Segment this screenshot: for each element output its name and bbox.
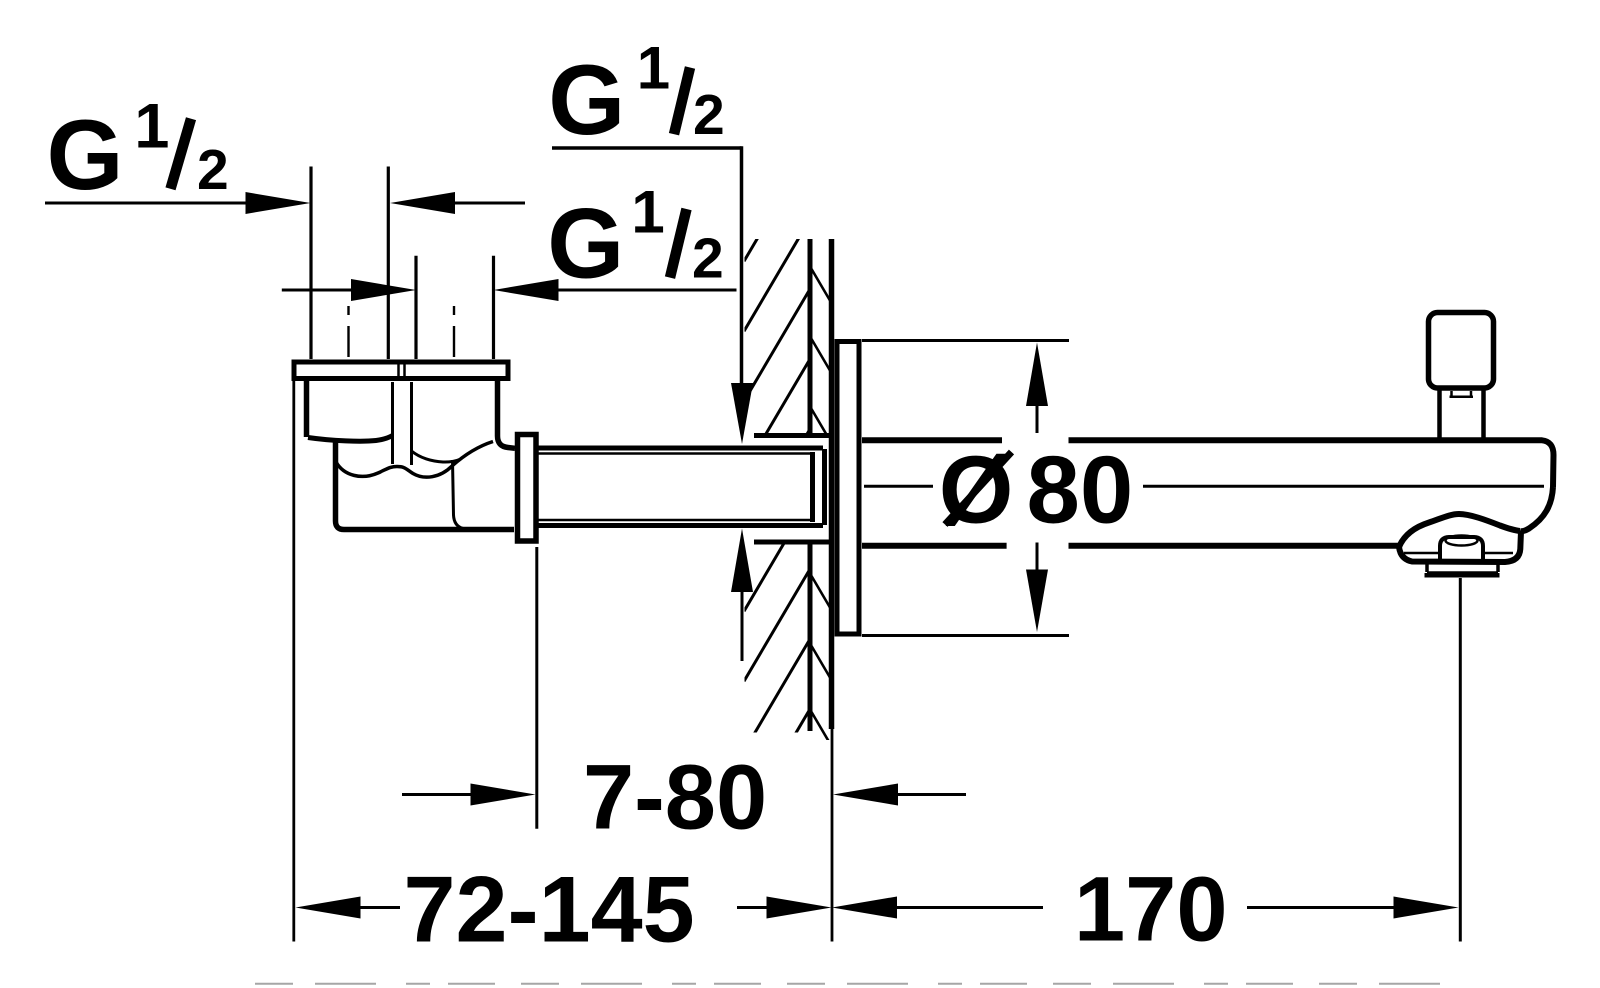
rough wall line lower <box>808 545 813 732</box>
dia80 extension line bottom <box>862 634 1069 637</box>
dim tail left of pair2 <box>282 289 353 292</box>
svg-text:7-80: 7-80 <box>583 747 767 849</box>
casting contour wave <box>336 442 493 478</box>
spout chin ridge <box>1399 514 1520 547</box>
leader drop line <box>740 146 744 385</box>
svg-text:72-145: 72-145 <box>404 857 695 962</box>
right chamber wall and corner to collar <box>498 380 516 448</box>
dia80 down arrowhead <box>1026 570 1048 633</box>
bowtie arrow left-tip at wall <box>832 897 897 919</box>
connector pipe inner top <box>539 452 812 455</box>
arrowhead left-tip at v2 <box>390 192 455 214</box>
svg-text:G: G <box>47 99 124 210</box>
rough wall line upper <box>808 239 813 434</box>
centerline dashes port 1 <box>347 306 349 357</box>
aerator dome <box>1440 537 1483 562</box>
spout end lower curve <box>1520 487 1553 531</box>
wall hatching <box>744 149 830 821</box>
finished wall line thick <box>829 239 835 729</box>
inlet tube 2 left wall / ext line v3 <box>414 256 417 359</box>
arrowhead down at pipe top <box>731 383 753 444</box>
elbow body outline <box>336 439 515 530</box>
tile layer herringbone marks <box>812 269 831 744</box>
spout face outline <box>1399 531 1521 562</box>
face seam line <box>1404 552 1513 555</box>
arrowhead left-tip 72-145 <box>296 897 361 919</box>
ext line left plate for 72-145 <box>292 381 295 942</box>
sliding collar <box>518 435 537 542</box>
dim tail right of pair1 <box>455 202 525 205</box>
dim tail right of pair2 / underline of middle label <box>559 289 737 292</box>
arrowhead left-tip at wall <box>833 784 898 806</box>
svg-text:G: G <box>547 188 624 299</box>
knob stem left <box>1437 391 1442 438</box>
svg-text:1: 1 <box>631 179 664 246</box>
centerline dashes port 2 <box>453 306 455 357</box>
left chamber wall <box>304 380 310 437</box>
connector pipe inner bottom <box>539 519 812 522</box>
arrowhead left-tip at v4 <box>494 279 559 301</box>
svg-text:2: 2 <box>692 227 724 291</box>
connector pipe outer bottom <box>539 523 824 528</box>
dim 72-145 right tail <box>737 906 768 909</box>
svg-text:1: 1 <box>134 92 169 162</box>
knob stem right <box>1481 391 1486 438</box>
dim 170 right tail <box>1247 906 1395 909</box>
ext line collar for 7-80 <box>535 547 538 829</box>
svg-text:80: 80 <box>1027 437 1134 544</box>
diverter knob <box>1429 313 1494 389</box>
svg-text:2: 2 <box>693 83 725 147</box>
escutcheon flange <box>837 342 859 635</box>
pipe end bar 2 <box>822 449 827 525</box>
ext line aerator for 170 <box>1459 578 1462 942</box>
label G1/2 left inlet <box>47 92 229 211</box>
stem notch <box>1452 391 1472 396</box>
svg-text:170: 170 <box>1074 859 1228 961</box>
dia80 dim line upper tail <box>1036 400 1039 433</box>
chamber divider wall left <box>391 382 394 464</box>
left chamber bottom curve <box>308 436 393 442</box>
dim 7-80 right tail <box>898 793 966 796</box>
wall hole top edge <box>754 433 831 438</box>
plate seam lines <box>397 360 400 381</box>
dia80 extension line top <box>862 339 1069 342</box>
label G1/2 diverter port (middle) <box>547 179 723 299</box>
inlet tube 2 right wall / ext line v4 <box>492 256 495 359</box>
chamber divider wall right <box>410 382 413 465</box>
spout barrel top edge <box>862 440 1554 487</box>
spout barrel bottom edge <box>862 543 1399 549</box>
dim leader line G1/2 left <box>45 202 250 205</box>
arrowhead right-tip at v3 <box>351 279 416 301</box>
dim 72-145 left tail <box>360 906 400 909</box>
inlet tube 1 right wall / ext line v2 <box>387 167 390 360</box>
elbow inner edge <box>453 460 464 529</box>
aerator top ellipse <box>1446 536 1478 546</box>
arrowhead up at pipe bottom <box>731 529 753 593</box>
arrowhead right at v1 <box>246 192 311 214</box>
pipe end bar 1 <box>810 452 815 522</box>
tail below up arrow <box>741 592 744 661</box>
scan artifact dashes bottom <box>255 983 1445 985</box>
inlet tube 1 left wall / ext line v1 <box>309 167 312 360</box>
dia80 up arrowhead <box>1026 343 1048 407</box>
aerator ring sides <box>1427 565 1498 573</box>
svg-text:G: G <box>548 44 625 155</box>
arrowhead right-tip at collar ext <box>471 784 536 806</box>
svg-text:1: 1 <box>637 35 670 102</box>
bowtie arrow right-tip at wall <box>767 897 832 919</box>
dim 7-80 left tail <box>402 793 472 796</box>
dia80 dim line lower tail <box>1036 543 1039 573</box>
spout inner line <box>864 485 1544 488</box>
label G1/2 wall connection (top center) <box>548 35 724 156</box>
right chamber bottom wave <box>412 451 462 462</box>
arrowhead right-tip 170 <box>1394 897 1459 919</box>
leader underline top center <box>552 146 742 150</box>
fitting mounting plate <box>294 362 508 379</box>
aerator ring plate <box>1427 571 1498 573</box>
finished wall line thin extension <box>831 729 834 942</box>
wall hole bottom edge <box>754 540 831 545</box>
dim 170 left tail <box>897 906 1043 909</box>
connector pipe outer top <box>539 446 824 451</box>
svg-text:2: 2 <box>197 138 229 202</box>
